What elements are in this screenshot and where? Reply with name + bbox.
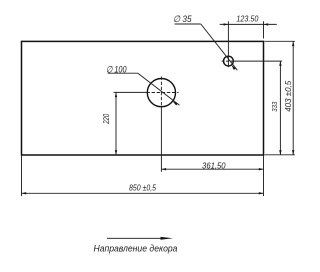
svg-text:220: 220: [102, 113, 111, 124]
svg-text:Направление декора: Направление декора: [94, 244, 178, 254]
dim 850 bottom: [22, 155, 264, 196]
dim 123.50 arrows (outside): [224, 23, 229, 25]
leader arrow D100: [173, 101, 178, 105]
svg-text:123.50: 123.50: [236, 13, 258, 23]
hole circle D100: [147, 79, 175, 107]
hole circle D35: [224, 56, 234, 66]
panel outline rectangle: [22, 41, 264, 155]
centerline vertical of D100: [160, 77, 162, 107]
svg-text:∅ 100: ∅ 100: [106, 64, 127, 74]
leader D35: [175, 24, 238, 70]
svg-text:∅ 35: ∅ 35: [173, 14, 192, 24]
centerline horizontal of D100: [147, 92, 179, 94]
dim 123.50 top: [220, 21, 277, 38]
centerline horizontal of D35: [222, 60, 236, 62]
svg-text:361,50: 361,50: [202, 160, 226, 170]
svg-text:403 ±0,5: 403 ±0,5: [284, 80, 293, 112]
leader D100: [108, 73, 180, 105]
decor direction arrow: [107, 237, 165, 239]
svg-text:850 ±0,5: 850 ±0,5: [129, 183, 156, 193]
dim 220 left of circle: [114, 92, 148, 155]
dim 403 right: [265, 41, 295, 155]
dim 333 right: [233, 61, 282, 155]
dim 361,50: [161, 107, 263, 196]
leader arrow D35: [231, 65, 235, 70]
centerline vertical of D35 (extends to top dim and below circle): [227, 21, 229, 67]
svg-text:333: 333: [270, 101, 279, 112]
